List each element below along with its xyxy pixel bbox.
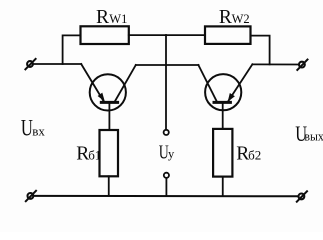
wire Rb1 to bottom rail bbox=[108, 176, 110, 195]
transistor VT2 base lead bbox=[222, 102, 224, 128]
svg-text:R: R bbox=[96, 7, 109, 28]
svg-text:вых: вых bbox=[304, 129, 323, 144]
wire RW1 left lead bbox=[63, 35, 81, 64]
wire bottom rail bbox=[30, 195, 301, 197]
terminal Uy lower bbox=[164, 173, 169, 178]
resistor Rb2 bbox=[213, 129, 232, 177]
wire collector bus bbox=[136, 64, 199, 66]
svg-text:б1: б1 bbox=[88, 148, 101, 163]
svg-text:у: у bbox=[168, 147, 175, 161]
wire input from terminal to emitter corner bbox=[33, 63, 82, 65]
terminal input bbox=[25, 59, 35, 69]
transistor VT1 circle bbox=[90, 74, 126, 110]
terminal output bbox=[297, 60, 307, 70]
wire top node to RW2 left lead bbox=[166, 34, 205, 36]
transistor VT2 emitter line bbox=[228, 64, 252, 101]
wire output to terminal bbox=[252, 63, 299, 65]
svg-text:б2: б2 bbox=[248, 148, 261, 163]
svg-text:R: R bbox=[219, 7, 232, 28]
resistor RW2 bbox=[205, 26, 251, 44]
transistor VT2 circle bbox=[205, 74, 241, 110]
transistor VT1 emitter line bbox=[81, 64, 104, 102]
transistor VT1 base lead bbox=[108, 102, 110, 130]
terminal Uy upper bbox=[164, 130, 169, 135]
resistor RW1 bbox=[81, 26, 129, 44]
transistor VT2 collector line bbox=[198, 65, 216, 102]
transistor VT2 emitter arrow bbox=[228, 93, 235, 102]
wire RW1 right lead to top node bbox=[129, 34, 166, 36]
svg-text:W2: W2 bbox=[232, 12, 250, 26]
wire Uy lower terminal to bottom rail bbox=[165, 178, 167, 196]
transistor VT2 base bar bbox=[214, 101, 230, 104]
svg-text:вх: вх bbox=[32, 124, 45, 139]
terminal bottom right bbox=[297, 191, 307, 201]
wire Rb2 to bottom rail bbox=[222, 177, 224, 196]
transistor VT1 emitter arrow bbox=[98, 93, 105, 102]
wire RW2 right lead bbox=[251, 36, 270, 65]
wire center vertical to Uy upper terminal bbox=[165, 35, 167, 130]
transistor VT1 base bar bbox=[101, 101, 117, 104]
transistor VT1 collector line bbox=[115, 65, 136, 102]
resistor Rb1 bbox=[100, 130, 119, 176]
terminal bottom left bbox=[26, 191, 36, 201]
svg-text:W1: W1 bbox=[109, 12, 127, 26]
